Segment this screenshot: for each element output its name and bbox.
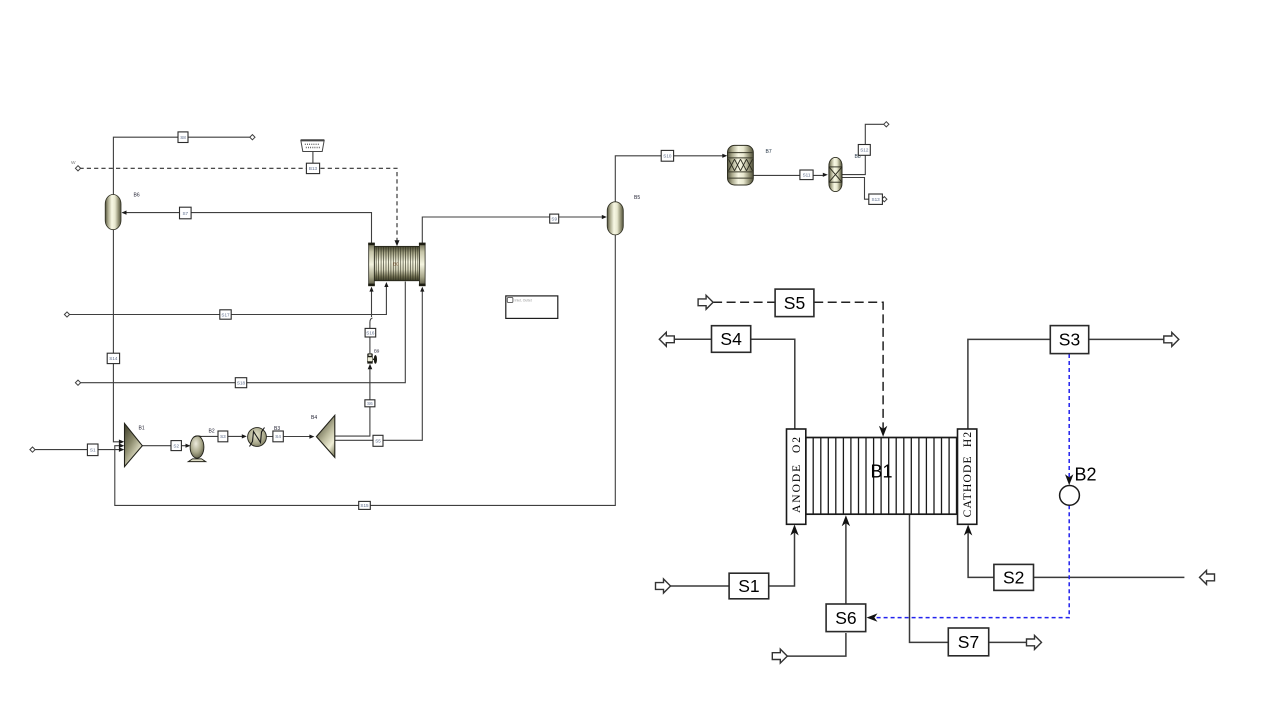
wire S2 cathode feed	[968, 528, 1184, 578]
wire cold feed 1 into exchanger	[69, 286, 387, 315]
node line1 diamond	[64, 312, 69, 317]
node S2 box	[994, 564, 1034, 590]
svg-text:S12: S12	[860, 148, 869, 153]
node S4 outlet arrow	[659, 332, 674, 346]
wire vessel-B6-bottom to compressor	[113, 230, 121, 442]
wire pump to heater	[199, 436, 245, 437]
svg-text:S10: S10	[663, 154, 672, 159]
svg-text:S6: S6	[835, 608, 856, 628]
node label S17	[220, 310, 231, 319]
svg-text:W: W	[71, 160, 76, 166]
node label S13	[869, 194, 883, 204]
electrolyzer cathode terminal	[958, 429, 977, 524]
node S7 box	[948, 628, 988, 656]
wire S7 drain	[910, 515, 949, 643]
wire B8 bottom product	[842, 178, 869, 200]
svg-text:B2: B2	[1075, 465, 1097, 485]
svg-text:B5: B5	[634, 195, 640, 201]
svg-text:S11: S11	[803, 173, 811, 178]
node S4 box	[712, 326, 751, 353]
svg-text:S2: S2	[1003, 567, 1024, 587]
node label S3w	[218, 431, 228, 442]
svg-text:B7: B7	[766, 149, 772, 155]
svg-text:B9: B9	[374, 349, 380, 354]
heat-exchanger B0	[368, 243, 425, 287]
node S5 inlet arrow	[698, 295, 713, 309]
svg-text:S16: S16	[366, 331, 375, 336]
drum B7	[728, 145, 754, 185]
svg-text:B4: B4	[311, 415, 317, 421]
node label S15	[359, 501, 371, 509]
node S6 inlet arrow	[772, 649, 787, 663]
node S2 inlet arrow	[1200, 570, 1215, 584]
turbine B4	[316, 415, 334, 457]
node S5 box	[775, 289, 814, 317]
node label S5w	[373, 435, 383, 446]
wire cold feed 2 into exchanger	[80, 282, 406, 383]
wire exchanger-top-left to vessel B6	[123, 213, 372, 244]
node feed diamond	[30, 447, 35, 452]
node label S16	[365, 328, 376, 337]
svg-text:S3: S3	[220, 434, 226, 439]
vessel B8	[829, 157, 842, 191]
svg-text:S8: S8	[180, 135, 186, 140]
node label S6w	[365, 400, 375, 407]
svg-text:S14: S14	[109, 356, 118, 361]
node S3 box	[1050, 326, 1088, 354]
wire B2 blue dotted S3-to-B2	[1068, 354, 1070, 482]
wire S5 power dashed	[713, 301, 774, 303]
pump B2 circle	[1060, 486, 1080, 506]
svg-text:S9: S9	[551, 216, 557, 221]
node label S18	[235, 378, 246, 388]
wire S4 anode gas out	[675, 339, 795, 428]
svg-text:S2: S2	[173, 443, 179, 448]
wire vessel B5 to drum B7	[615, 156, 725, 202]
svg-text:S6: S6	[367, 401, 373, 406]
node label S14	[107, 353, 119, 363]
svg-text:B2: B2	[209, 429, 215, 435]
node label S9	[550, 214, 559, 223]
wire vessel-B6-top to open end S8	[113, 137, 252, 194]
svg-text:B6: B6	[134, 193, 140, 199]
heater B3	[248, 428, 267, 447]
electrolyzer B1 body	[806, 438, 957, 515]
node label S8	[178, 132, 188, 143]
wire dashed control line to exchanger top	[80, 168, 398, 240]
vessel B5	[607, 202, 623, 235]
svg-text:S4: S4	[275, 434, 281, 439]
node label S4w	[273, 431, 283, 442]
svg-text:S1: S1	[738, 576, 759, 596]
svg-text:CATHODE H2: CATHODE H2	[962, 431, 974, 518]
svg-text:Inlet, Outlet: Inlet, Outlet	[515, 299, 532, 303]
svg-text:S5: S5	[784, 293, 805, 313]
node B8 bottom diamond	[882, 197, 887, 202]
svg-text:S3: S3	[1059, 330, 1080, 350]
node line2 diamond	[75, 380, 80, 385]
vessel B6	[105, 195, 121, 230]
svg-text:S18: S18	[237, 381, 246, 386]
wire drum B7 to vessel B8	[753, 174, 825, 176]
node label S11	[800, 170, 813, 180]
svg-text:S7: S7	[958, 632, 979, 652]
wire feed into compressor	[34, 449, 121, 451]
svg-text:B1: B1	[870, 462, 892, 482]
svg-text:S15: S15	[360, 503, 369, 508]
wire turbine outlet 1 via valve B9 to exchanger	[335, 369, 370, 437]
node label S10	[661, 150, 673, 161]
svg-text:S17: S17	[221, 312, 230, 317]
svg-text:ANODE O2: ANODE O2	[791, 435, 803, 513]
svg-text:S13: S13	[872, 197, 881, 202]
svg-text:S7: S7	[182, 211, 188, 216]
wire recycle bus B5-bottom to compressor	[115, 235, 616, 506]
pump B2	[188, 436, 206, 462]
wire heater to turbine	[266, 436, 311, 438]
node S1 inlet arrow	[656, 579, 671, 593]
svg-text:B13: B13	[309, 166, 318, 171]
node label B13	[306, 163, 319, 173]
svg-text:S1: S1	[90, 448, 96, 453]
node label S12	[858, 145, 870, 156]
svg-text:S4: S4	[720, 329, 742, 349]
node S6 box	[826, 604, 866, 632]
electrolyzer anode terminal	[787, 429, 806, 524]
node label S1w	[87, 444, 98, 456]
wire compressor to pump	[142, 445, 188, 447]
node open-end S8 diamond	[250, 135, 255, 140]
wire B2 blue dotted B2-to-S6	[870, 505, 1070, 617]
node B8 top diamond	[884, 122, 889, 127]
node control diamond	[75, 166, 80, 171]
wire B8 top product	[842, 156, 865, 175]
svg-text:B1: B1	[139, 426, 145, 432]
svg-text:B0: B0	[393, 262, 399, 267]
node S1 box	[729, 573, 769, 599]
wire S1 anode feed	[671, 528, 795, 587]
node S7 outlet arrow	[1027, 635, 1042, 649]
controller connector icon	[301, 140, 324, 163]
node label S2w	[171, 441, 181, 451]
svg-text:S5: S5	[375, 439, 381, 444]
node label S7w	[180, 207, 192, 219]
wire turbine outlet 2 to exchanger right flange	[335, 291, 423, 441]
wire S6 water feed	[787, 633, 846, 656]
legend annotation box	[506, 296, 558, 319]
valve B9	[367, 353, 377, 369]
wire exchanger-top-right to vessel B5	[422, 217, 604, 244]
node S3 outlet arrow	[1164, 332, 1179, 346]
compressor B1	[125, 424, 143, 467]
wire S3 cathode gas out	[968, 339, 1164, 428]
